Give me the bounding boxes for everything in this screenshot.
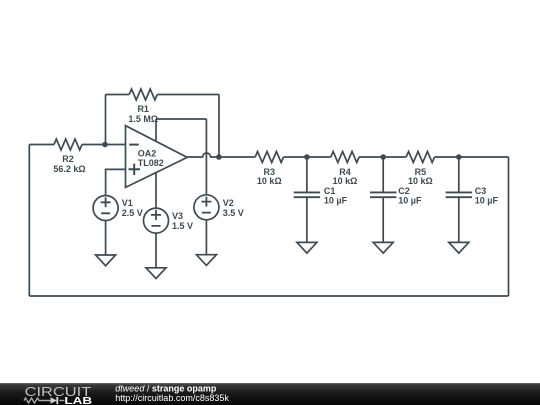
wire: R1 feedback loop left vertical: [105, 95, 107, 145]
svg-text:10 µF: 10 µF: [398, 196, 422, 206]
wire: V3 to ground: [155, 233, 157, 268]
svg-text:3.5 V: 3.5 V: [223, 208, 244, 218]
ground: below C2: [373, 242, 393, 253]
svg-text:V3: V3: [172, 211, 183, 221]
voltage source V2: [194, 195, 219, 220]
label OA2 TL082: [138, 149, 164, 169]
ground: below C1: [297, 242, 317, 253]
svg-text:OA2: OA2: [138, 149, 157, 159]
op-amp inverting input minus symbol: [129, 144, 139, 146]
wire: C2 to ground: [382, 197, 384, 242]
node: op-amp output junction: [216, 154, 222, 160]
svg-text:10 µF: 10 µF: [475, 196, 499, 206]
capacitor C1: [294, 192, 320, 197]
wire: R1 feedback loop top left segment: [106, 94, 130, 96]
wire: input rail from left rail to op-amp inverting input: [29, 144, 125, 146]
svg-text:R1: R1: [137, 104, 149, 114]
svg-text:dtweed / strange opamp: dtweed / strange opamp: [115, 383, 217, 393]
footer url text: [115, 393, 229, 403]
node: C1 junction: [304, 154, 310, 160]
wire: R1 feedback loop top right segment: [157, 94, 219, 96]
voltage source V1: [93, 196, 118, 221]
wire: C3 to ground: [458, 197, 460, 242]
ground: below V1: [96, 255, 116, 266]
svg-text:C1: C1: [324, 186, 336, 196]
wire: right feedback rail (right vertical): [508, 157, 510, 296]
wire: C2 top vertical: [382, 157, 384, 192]
label C3 value: [475, 186, 499, 206]
wire: between R4 and R5: [359, 156, 406, 158]
resistor R2: [54, 139, 82, 150]
footer title text: [115, 383, 217, 393]
label R1 value: [128, 104, 158, 124]
wire: V2 to ground: [205, 220, 207, 255]
wire: R1 feedback loop right vertical down to output node: [218, 95, 220, 158]
svg-text:C2: C2: [398, 186, 410, 196]
wire: R5 to right rail: [435, 156, 509, 158]
svg-text:TL082: TL082: [138, 158, 164, 168]
resistor R3: [255, 152, 283, 163]
label V1 value: [122, 198, 143, 218]
svg-text:10 kΩ: 10 kΩ: [333, 176, 358, 186]
svg-text:1.5 MΩ: 1.5 MΩ: [128, 114, 158, 124]
op-amp non-inverting input plus symbol: [129, 164, 141, 175]
ground: below V2: [196, 255, 216, 266]
svg-text:LAB: LAB: [64, 396, 92, 405]
node: C3 junction: [456, 154, 462, 160]
capacitor C3: [446, 192, 472, 197]
CircuitLab logo wordmark CIRCUIT: [25, 384, 92, 399]
wire: V2 top vertical to crossing: [205, 119, 207, 195]
op-amp OA2 triangle: [126, 126, 188, 188]
wire: bottom feedback rail: [29, 295, 508, 297]
label R5 value: [408, 167, 433, 186]
svg-text:V1: V1: [122, 198, 133, 208]
label R3 value: [257, 167, 282, 186]
footer bar: [0, 383, 540, 405]
resistor R4: [331, 152, 359, 163]
svg-text:56.2 kΩ: 56.2 kΩ: [53, 164, 85, 174]
label V2 value: [223, 198, 244, 218]
node: inverting input junction: [102, 142, 108, 148]
svg-text:10 kΩ: 10 kΩ: [408, 176, 433, 186]
svg-text:C3: C3: [475, 186, 487, 196]
label C1 value: [324, 186, 348, 206]
ground: below C3: [449, 242, 469, 253]
CircuitLab logo wordmark LAB: [64, 396, 92, 405]
svg-text:R2: R2: [62, 154, 74, 164]
node: C2 junction: [380, 154, 386, 160]
wire: op-amp V- pin vertical down to V3: [155, 172, 157, 208]
wire: between R3 and R4: [284, 156, 331, 158]
svg-text:10 µF: 10 µF: [324, 196, 348, 206]
capacitor C2: [370, 192, 396, 197]
svg-text:10 kΩ: 10 kΩ: [257, 176, 282, 186]
wire: C1 top vertical: [306, 157, 308, 192]
wire: op-amp output with hop over V2 wire: [187, 153, 255, 157]
ground: below V3: [146, 268, 166, 279]
wire: V1 to ground: [105, 221, 107, 256]
wire: op-amp V+ supply horizontal to V2: [156, 118, 206, 120]
label V3 value: [172, 211, 193, 231]
svg-text:http://circuitlab.com/c8s835k: http://circuitlab.com/c8s835k: [115, 393, 229, 403]
wire: op-amp V+ pin vertical: [155, 119, 157, 142]
wire: C3 top vertical: [458, 157, 460, 192]
wire: C1 to ground: [306, 197, 308, 242]
resistor R5: [406, 152, 434, 163]
voltage source V3: [144, 208, 169, 233]
resistor R1: [129, 89, 157, 100]
wire: non-inverting input wire from V1: [106, 169, 126, 195]
svg-text:1.5 V: 1.5 V: [172, 221, 193, 231]
wire: left feedback rail (left vertical): [28, 145, 30, 297]
label R4 value: [333, 167, 358, 186]
svg-text:V2: V2: [223, 198, 234, 208]
label C2 value: [398, 186, 422, 206]
svg-text:2.5 V: 2.5 V: [122, 208, 143, 218]
label R2 value: [53, 154, 85, 174]
CircuitLab logo resistor squiggle and diode: [24, 397, 64, 404]
